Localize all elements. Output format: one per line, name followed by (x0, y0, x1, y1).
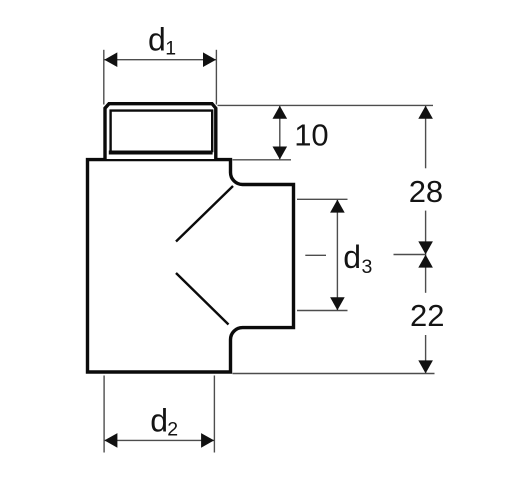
d2 arrow right (201, 433, 214, 448)
28 arrow up (418, 106, 433, 119)
svg-text:d: d (343, 239, 361, 275)
d1 extension line left (103, 50, 105, 105)
d3 dimension line (336, 200, 338, 310)
d2 arrow left (104, 433, 117, 448)
28/22 dimension line (425, 106, 427, 168)
22 arrow down (418, 360, 433, 373)
fitting body outline with side branch (88, 160, 294, 372)
svg-text:2: 2 (167, 419, 178, 441)
d1 extension line right (215, 50, 217, 105)
d1 arrow right (203, 52, 216, 67)
10 arrow down (273, 147, 288, 160)
svg-text:28: 28 (409, 174, 443, 209)
chamfer transition line lower (176, 273, 229, 325)
d1 dimension line (104, 59, 216, 61)
22 arrow up at centerline (418, 255, 433, 268)
d3 arrow down (330, 297, 345, 310)
socket collar outer wall (105, 104, 216, 159)
d3 extension line top (297, 198, 348, 200)
centerline tick left of 28/22 line (394, 254, 426, 256)
socket collar inner bottom edge (109, 151, 213, 155)
d1 arrow left (104, 52, 117, 67)
d2 extension line right (213, 376, 215, 453)
d2 extension line left (103, 376, 105, 453)
10 arrow up (273, 106, 288, 119)
svg-text:22: 22 (410, 298, 444, 333)
svg-text:d: d (150, 402, 168, 438)
branch centerline tick (305, 254, 326, 256)
bottom extension line from body (233, 373, 435, 375)
extension line from body top (233, 159, 292, 161)
d3 arrow up (330, 200, 345, 213)
top extension line from collar (218, 104, 434, 106)
svg-text:1: 1 (165, 38, 176, 60)
chamfer transition line upper (176, 186, 233, 242)
socket collar inner wall (111, 111, 213, 153)
d3 extension line bottom (297, 310, 348, 312)
10 dimension line (279, 106, 281, 159)
svg-text:10: 10 (294, 118, 328, 153)
d2 dimension line (105, 439, 214, 441)
28 arrow down at centerline (418, 241, 433, 254)
svg-text:d: d (148, 21, 166, 57)
svg-text:3: 3 (362, 256, 373, 278)
